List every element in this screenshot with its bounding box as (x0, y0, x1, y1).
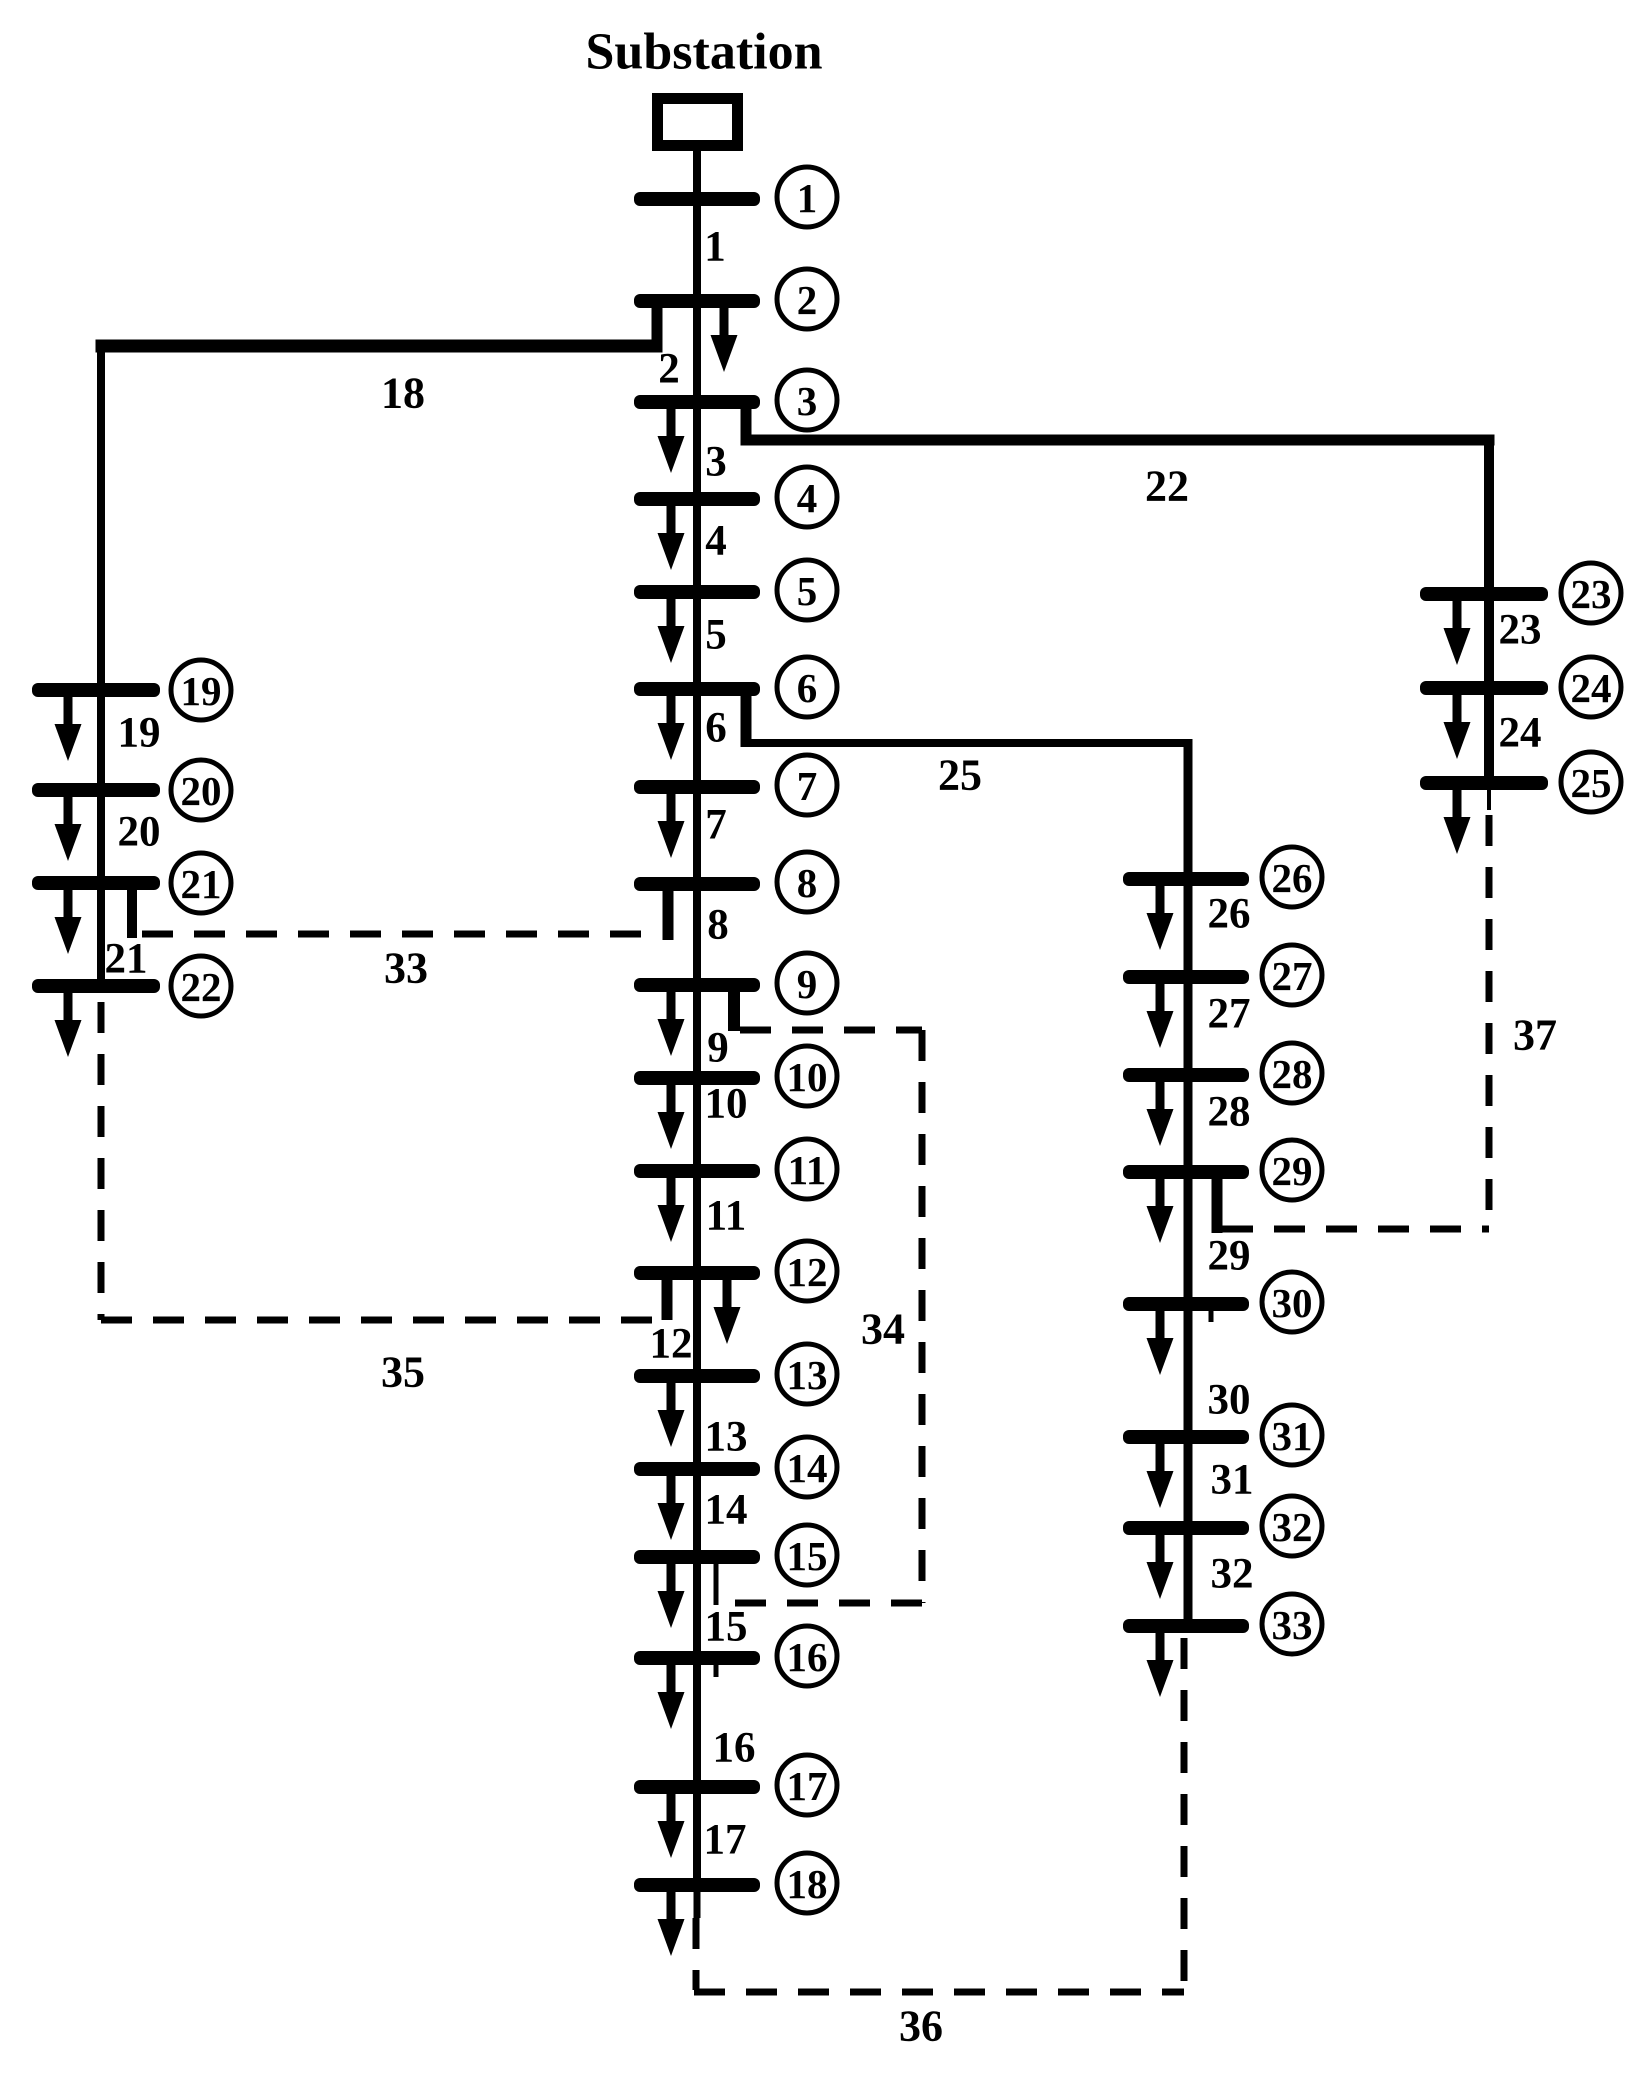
svg-text:29: 29 (1208, 1233, 1251, 1280)
svg-text:18: 18 (381, 369, 425, 418)
svg-text:30: 30 (1208, 1377, 1251, 1424)
svg-text:27: 27 (1272, 953, 1313, 999)
svg-text:25: 25 (1571, 760, 1612, 806)
svg-text:12: 12 (787, 1249, 828, 1295)
svg-text:1: 1 (797, 175, 818, 221)
svg-text:31: 31 (1211, 1457, 1254, 1504)
svg-text:15: 15 (787, 1533, 828, 1579)
svg-text:16: 16 (787, 1634, 828, 1680)
svg-text:10: 10 (787, 1054, 828, 1100)
svg-text:3: 3 (797, 378, 818, 424)
svg-text:5: 5 (797, 568, 818, 614)
svg-text:26: 26 (1208, 891, 1251, 938)
svg-text:27: 27 (1208, 991, 1251, 1038)
svg-text:17: 17 (787, 1763, 828, 1809)
svg-text:15: 15 (705, 1604, 748, 1651)
svg-text:6: 6 (705, 705, 727, 752)
svg-text:24: 24 (1499, 710, 1542, 757)
svg-text:23: 23 (1499, 607, 1542, 654)
svg-text:35: 35 (381, 1348, 425, 1397)
svg-text:37: 37 (1513, 1011, 1557, 1060)
svg-text:23: 23 (1571, 571, 1612, 617)
svg-text:18: 18 (787, 1861, 828, 1907)
svg-text:31: 31 (1272, 1413, 1313, 1459)
svg-text:3: 3 (705, 439, 727, 486)
svg-text:5: 5 (705, 612, 727, 659)
svg-text:26: 26 (1272, 855, 1313, 901)
svg-text:12: 12 (650, 1321, 693, 1368)
svg-text:29: 29 (1272, 1148, 1313, 1194)
svg-text:30: 30 (1272, 1280, 1313, 1326)
svg-text:7: 7 (797, 763, 818, 809)
svg-text:9: 9 (797, 961, 818, 1007)
svg-text:2: 2 (797, 277, 818, 323)
svg-text:22: 22 (181, 964, 222, 1010)
svg-text:28: 28 (1208, 1089, 1251, 1136)
svg-text:4: 4 (705, 518, 727, 565)
svg-text:34: 34 (861, 1305, 905, 1354)
svg-text:6: 6 (797, 665, 818, 711)
svg-text:21: 21 (105, 936, 148, 983)
svg-text:32: 32 (1211, 1551, 1254, 1598)
svg-text:36: 36 (899, 2002, 943, 2051)
svg-text:11: 11 (706, 1193, 747, 1240)
svg-text:1: 1 (704, 224, 726, 271)
svg-text:2: 2 (658, 346, 680, 393)
svg-text:20: 20 (181, 768, 222, 814)
svg-text:10: 10 (705, 1081, 748, 1128)
svg-text:28: 28 (1272, 1051, 1313, 1097)
svg-text:19: 19 (118, 710, 161, 757)
svg-text:4: 4 (797, 475, 818, 521)
svg-text:7: 7 (705, 802, 727, 849)
svg-text:13: 13 (705, 1414, 748, 1461)
svg-text:17: 17 (704, 1817, 747, 1864)
svg-text:8: 8 (707, 902, 729, 949)
svg-text:9: 9 (707, 1025, 729, 1072)
svg-text:24: 24 (1571, 665, 1612, 711)
svg-text:8: 8 (797, 860, 818, 906)
svg-text:22: 22 (1145, 462, 1189, 511)
svg-text:14: 14 (705, 1487, 748, 1534)
svg-text:Substation: Substation (586, 24, 823, 81)
svg-text:25: 25 (938, 751, 982, 800)
svg-text:33: 33 (1272, 1602, 1313, 1648)
svg-text:20: 20 (118, 809, 161, 856)
svg-text:13: 13 (787, 1352, 828, 1398)
svg-text:33: 33 (384, 944, 428, 993)
svg-text:19: 19 (181, 668, 222, 714)
svg-text:16: 16 (713, 1725, 756, 1772)
svg-text:11: 11 (788, 1147, 827, 1193)
svg-text:21: 21 (181, 861, 222, 907)
svg-text:14: 14 (787, 1445, 828, 1491)
svg-text:32: 32 (1272, 1504, 1313, 1550)
